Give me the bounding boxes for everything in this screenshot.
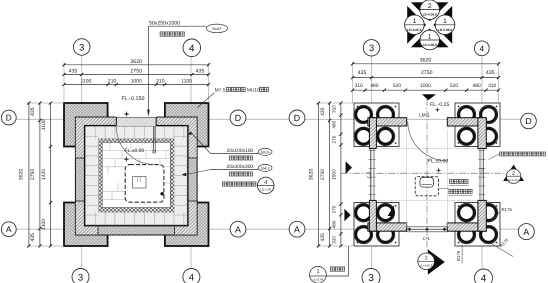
grid bubble 4 top-right plan (474, 41, 489, 56)
elevation index pinwheel symbol (403, 0, 456, 51)
svg-text:FL.±0.00: FL.±0.00 (125, 148, 145, 154)
svg-text:1: 1 (425, 256, 428, 262)
svg-text:C-2: C-2 (367, 171, 372, 179)
left plan dim line 1100/210/1000/210/1100 top (64, 84, 209, 86)
svg-text:LD-3.09: LD-3.09 (313, 277, 324, 281)
svg-text:480: 480 (331, 120, 336, 128)
right plan: wall segments (368, 118, 407, 126)
svg-text:5041F: 5041F (212, 27, 222, 31)
svg-text:3: 3 (369, 43, 374, 53)
left plan: corner pier SW (64, 203, 108, 247)
grid axis line 4 (right plan) (481, 56, 483, 269)
svg-text:1100: 1100 (181, 79, 192, 85)
left plan: entrance opening (116, 116, 157, 128)
svg-text:1100: 1100 (41, 219, 47, 230)
svg-text:LD-4.05.6: LD-4.05.6 (423, 13, 437, 17)
grid bubble 3 bottom-left plan (72, 269, 89, 283)
svg-text:2750: 2750 (30, 169, 36, 181)
left plan: door leaf (152, 126, 154, 151)
right plan dim line 3620 left (318, 103, 320, 246)
right plan: glass note text (500, 152, 504, 156)
svg-text:4: 4 (264, 180, 267, 186)
left plan dims: extension lines (27, 63, 209, 247)
svg-text:C-2: C-2 (480, 167, 485, 175)
svg-text:1: 1 (316, 269, 319, 275)
svg-text:4: 4 (189, 272, 195, 283)
right plan dim line 435/2750/435 top (353, 77, 499, 79)
interior view flags (346, 161, 352, 174)
left plan: entrance threshold paving (116, 117, 156, 126)
left plan dim line 435/2750/435 top (64, 74, 209, 76)
left plan: center table mark (133, 177, 147, 189)
svg-text:520: 520 (450, 83, 458, 89)
svg-text:435: 435 (196, 69, 205, 75)
svg-text:R175: R175 (502, 207, 513, 212)
elevation marker 1 (bottom) (428, 249, 445, 274)
svg-text:1: 1 (413, 18, 417, 25)
left plan: wall inner face heavy line (85, 126, 187, 224)
svg-text:3620: 3620 (19, 169, 25, 181)
svg-text:D: D (525, 116, 531, 126)
left plan: junction dot (160, 192, 163, 195)
right plan: door swing arc (408, 122, 447, 161)
right plan: table note text (450, 179, 454, 183)
svg-text:310: 310 (331, 236, 336, 244)
svg-text:5052A: 5052A (261, 150, 271, 154)
right plan: door sill C-1 (407, 226, 448, 228)
svg-text:2750: 2750 (421, 70, 433, 76)
grid bubble A mid-left (230, 221, 246, 237)
right plan: centerlines (426, 99, 428, 254)
left plan: corner pier NE (165, 103, 209, 147)
svg-text:310: 310 (488, 83, 496, 89)
svg-text:435: 435 (30, 233, 36, 242)
right plan dims: extension lines (316, 62, 499, 247)
svg-text:3: 3 (78, 272, 83, 283)
left plan dim line 1100/1420/1100 left (50, 103, 52, 246)
svg-text:210: 210 (156, 79, 165, 85)
svg-text:3: 3 (368, 273, 374, 283)
svg-text:R175: R175 (456, 250, 461, 261)
svg-text:480: 480 (473, 83, 481, 89)
left plan: masonry wall ring (75, 117, 197, 235)
grid bubble D far-right (521, 113, 537, 129)
svg-text:D: D (6, 114, 12, 123)
svg-text:310: 310 (331, 105, 336, 113)
left plan: mosaic border band (98, 139, 174, 213)
svg-text:D: D (294, 113, 300, 123)
svg-text:3: 3 (79, 42, 84, 52)
svg-text:LM-1: LM-1 (419, 112, 430, 117)
svg-text:FL.±0.00: FL.±0.00 (428, 158, 449, 164)
grid bubble D far-left (1, 110, 16, 125)
svg-text:A: A (235, 224, 241, 234)
svg-text:1: 1 (428, 33, 432, 40)
right plan: chair mark (420, 177, 433, 187)
svg-text:435: 435 (320, 233, 326, 242)
grid axis line D (16, 118, 230, 120)
svg-text:480: 480 (370, 83, 378, 89)
svg-text:M7.5: M7.5 (215, 87, 226, 93)
svg-text:2750: 2750 (320, 169, 326, 180)
right plan: column pad SW (354, 203, 399, 247)
right plan dim line 435/2750/435 left (329, 103, 331, 246)
svg-text:4: 4 (189, 43, 195, 54)
svg-text:1100: 1100 (41, 119, 47, 130)
left plan dim line 3620 top (64, 64, 209, 66)
svg-text:1500: 1500 (331, 169, 336, 180)
grid bubble 3 top-right plan (363, 40, 379, 56)
svg-text:270: 270 (331, 135, 336, 143)
svg-text:1000: 1000 (420, 83, 431, 89)
left plan: interior paving joints (102, 142, 170, 199)
grid axis line A (16, 228, 230, 230)
right plan: column pad NW (354, 103, 399, 147)
svg-text:435: 435 (69, 69, 78, 75)
svg-text:3620: 3620 (420, 58, 432, 64)
left plan dim line 435/2750/435 left (39, 103, 41, 246)
left plan: wall corner returns (diagonal hatch) (75, 117, 197, 235)
grid bubble D mid-left (230, 110, 246, 126)
left plan: corner pier NW (64, 103, 108, 147)
right plan dim line 3620 top (353, 63, 499, 65)
grid bubble 4 bottom-left plan (183, 269, 200, 283)
left plan: door swing arc (116, 127, 154, 165)
svg-text:1: 1 (443, 18, 447, 25)
grid bubble 4 bottom-right plan (475, 269, 493, 283)
grid axis line 3 (left plan) (81, 56, 83, 269)
svg-text:LD-4.05.3: LD-4.05.3 (508, 179, 520, 182)
left plan: central dashed paving square (125, 165, 164, 203)
grid bubble 3 top-left plan (73, 39, 90, 56)
grid bubble 3 bottom-right plan (362, 269, 380, 283)
grid axis line 3 (right plan) (371, 56, 373, 269)
svg-text:C-1: C-1 (423, 236, 431, 241)
right plan: quatrefoil columns (354, 105, 373, 124)
svg-text:210: 210 (108, 79, 117, 85)
elevation wedge top center (422, 94, 436, 100)
grid bubble D mid-right (289, 110, 305, 126)
svg-text:5041F: 5041F (261, 166, 270, 170)
grid bubble A far-right (518, 224, 534, 240)
annotation paving style 2 detail with index circle 4/LD-1.06 (222, 182, 226, 186)
section detail circle 1/LD-3.09 with label (310, 247, 349, 283)
svg-text:435: 435 (486, 70, 495, 76)
svg-text:50x250x1000: 50x250x1000 (149, 20, 180, 26)
svg-text:2: 2 (428, 3, 432, 10)
svg-text:435: 435 (358, 70, 367, 76)
right plan: table dashed box (415, 177, 438, 196)
svg-text:435: 435 (320, 107, 326, 116)
right plan dim line 310/480/520/1000/520/480/310 top (353, 89, 499, 91)
svg-text:LD-1.06: LD-1.06 (260, 188, 271, 192)
svg-text:310: 310 (355, 83, 363, 89)
svg-text:LD-4.05.6: LD-4.05.6 (423, 43, 437, 47)
left plan: corner pier SE (165, 203, 209, 247)
right plan: column pad NE (455, 103, 500, 147)
elevation marker 2 (right side) (503, 165, 524, 181)
svg-text:LD-4.05.6: LD-4.05.6 (407, 28, 421, 32)
left plan: interior floor (102, 142, 170, 207)
left plan dim line 3620 left (28, 103, 30, 246)
svg-text:1100: 1100 (81, 79, 92, 85)
svg-text:LD-4.05.3: LD-4.05.3 (420, 264, 433, 268)
svg-text:4: 4 (479, 44, 484, 53)
leader to entrance (147, 26, 149, 110)
svg-text:2: 2 (512, 171, 515, 177)
svg-text:270: 270 (331, 205, 336, 213)
svg-text:MU10: MU10 (247, 87, 260, 93)
svg-text:2750: 2750 (130, 69, 142, 75)
right plan: column pad SE (455, 203, 500, 247)
grid bubble 4 top-left plan (183, 39, 201, 57)
grid bubble A far-left (1, 222, 16, 237)
svg-text:FL.-0.150: FL.-0.150 (121, 96, 144, 102)
svg-text:480: 480 (331, 220, 336, 228)
svg-text:1420: 1420 (41, 169, 47, 180)
right plan: window C-2 left (369, 149, 371, 201)
svg-text:3620: 3620 (130, 59, 142, 65)
svg-text:A: A (294, 224, 300, 234)
svg-text:FL.-0.15: FL.-0.15 (430, 102, 449, 108)
svg-text:LD-4.05.6: LD-4.05.6 (438, 28, 452, 32)
svg-text:520: 520 (393, 83, 401, 89)
svg-text:A: A (6, 225, 12, 234)
right plan dim line 310/480/270/1500/270/480/310 left (340, 103, 342, 246)
svg-text:A: A (523, 227, 529, 237)
svg-text:1000: 1000 (131, 79, 142, 85)
left plan: paving tile band (85, 126, 187, 224)
right plan: projection lines (376, 129, 478, 227)
svg-text:3620: 3620 (308, 169, 314, 181)
svg-text:4: 4 (481, 274, 487, 283)
svg-text:D: D (235, 113, 241, 123)
right plan: window C-2 right (479, 149, 481, 201)
grid bubble A mid-right (289, 221, 305, 237)
grid axis line 4 (left plan) (190, 56, 192, 269)
svg-text:435: 435 (30, 107, 36, 116)
